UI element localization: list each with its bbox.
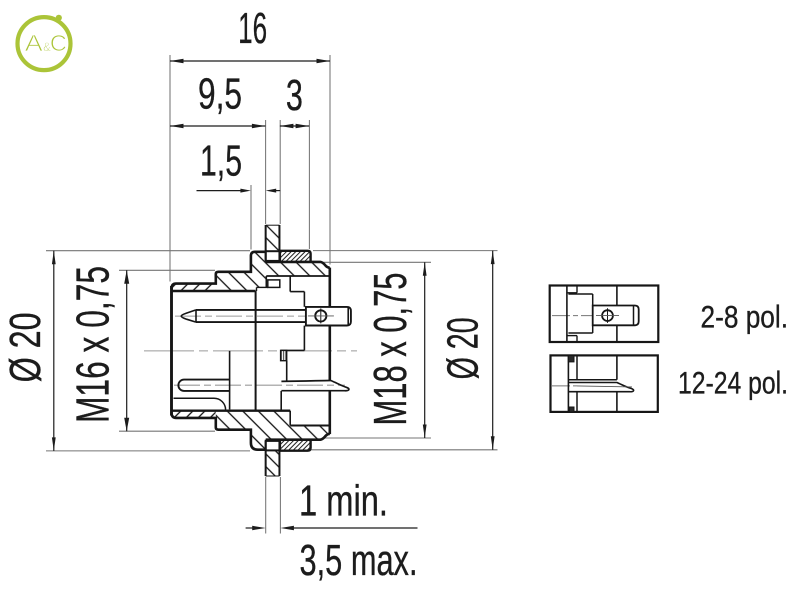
svg-text:2-8 pol.: 2-8 pol. [701, 299, 789, 335]
svg-text:C: C [50, 30, 67, 56]
svg-text:1 min.: 1 min. [299, 477, 388, 526]
svg-text:12-24 pol.: 12-24 pol. [678, 365, 788, 401]
svg-text:3,5 max.: 3,5 max. [300, 536, 418, 585]
svg-text:1,5: 1,5 [200, 137, 242, 186]
svg-text:M18 x 0,75: M18 x 0,75 [364, 273, 416, 426]
svg-text:A: A [25, 30, 43, 56]
svg-text:16: 16 [238, 4, 267, 53]
svg-text:3: 3 [286, 71, 303, 120]
svg-text:Ø 20: Ø 20 [439, 317, 488, 379]
svg-text:9,5: 9,5 [198, 70, 242, 119]
svg-text:M16 x 0,75: M16 x 0,75 [67, 266, 119, 423]
svg-text:Ø 20: Ø 20 [1, 312, 50, 382]
